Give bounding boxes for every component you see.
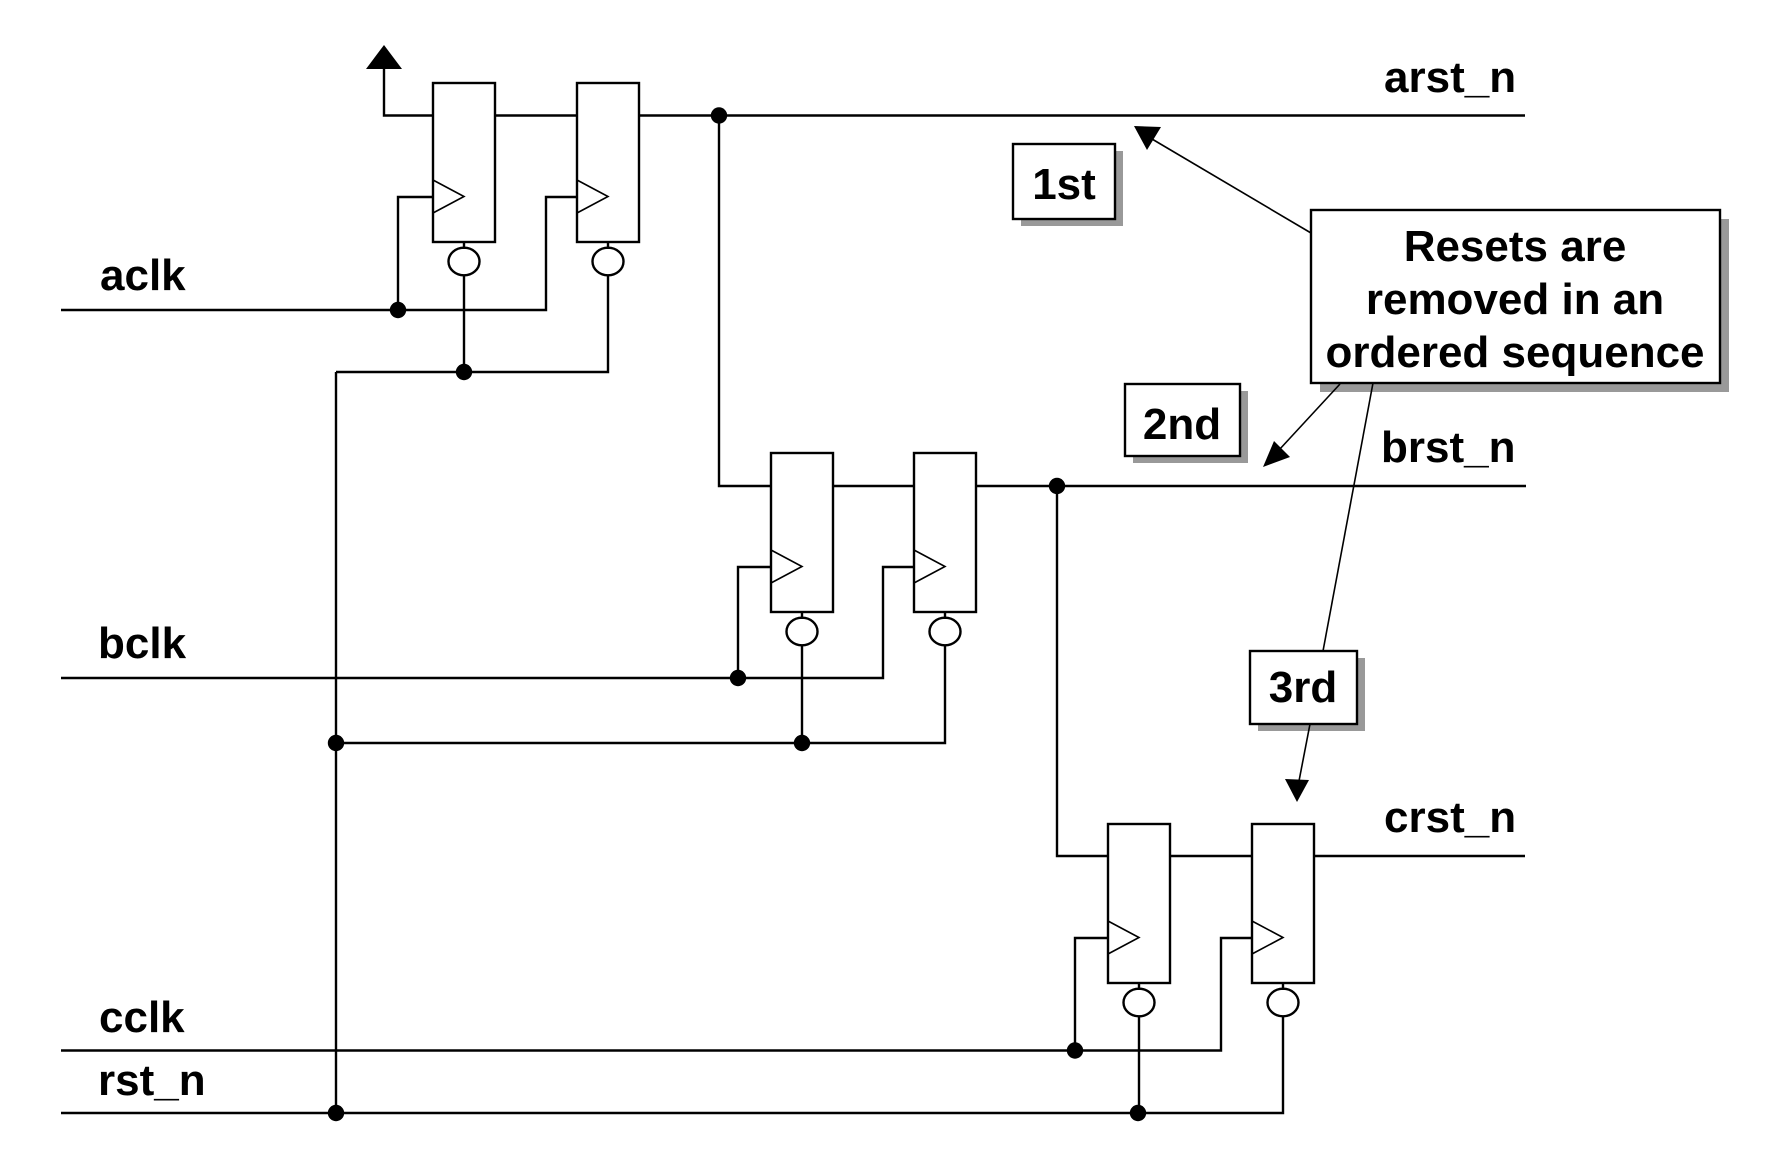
svg-text:ordered sequence: ordered sequence <box>1325 328 1704 377</box>
wire main rst_n vertical rail <box>335 372 337 1113</box>
node stage-B reset junction <box>794 735 810 751</box>
callout box 3rd <box>1250 651 1365 731</box>
wire FF5 reset pin stub <box>1138 983 1140 990</box>
wire FF5 reset bubble down <box>1138 1016 1140 1113</box>
node stage-A reset junction <box>456 364 472 380</box>
callout box 2nd <box>1125 384 1248 463</box>
svg-text:3rd: 3rd <box>1269 663 1337 712</box>
async reset bubble FF6 <box>1268 989 1299 1017</box>
wire FF6 reset pin stub <box>1282 983 1284 990</box>
wire cclk line <box>61 938 1252 1051</box>
wire bclk line <box>61 567 914 678</box>
wire FF4 reset pin stub <box>944 612 946 619</box>
node brst_n junction <box>1049 478 1065 494</box>
node cclk junction <box>1067 1042 1083 1058</box>
wire arst_n net (FF2.Q to right edge) <box>639 114 1525 116</box>
flip-flop FF4 (bclk stage 2) <box>914 453 976 612</box>
power arrow (logic-1 tie-high) <box>366 45 433 116</box>
callout box 1st <box>1013 144 1123 226</box>
wire bclk to FF3 clock <box>738 567 771 678</box>
async reset bubble FF1 <box>449 248 480 276</box>
arrow to brst_n (2nd) <box>1263 384 1340 467</box>
wire FF2 reset pin stub <box>607 242 609 249</box>
node arst_n junction <box>711 107 727 123</box>
node bclk junction <box>730 670 746 686</box>
svg-text:rst_n: rst_n <box>98 1056 206 1105</box>
svg-text:1st: 1st <box>1032 160 1096 209</box>
node rst_n rail junction <box>328 1105 344 1121</box>
wire FF1 reset bubble down <box>463 275 465 372</box>
wire FF3.Q to FF4.D <box>833 485 914 487</box>
svg-text:crst_n: crst_n <box>1384 793 1516 842</box>
flip-flop FF6 (cclk stage 2) <box>1252 824 1314 983</box>
svg-text:2nd: 2nd <box>1143 400 1221 449</box>
note box: Resets are removed in an ordered sequence <box>1311 210 1729 392</box>
svg-text:bclk: bclk <box>98 619 187 668</box>
wire aclk line <box>61 197 577 310</box>
wire FF1.Q to FF2.D <box>495 114 577 116</box>
wire aclk to FF1 clock <box>398 197 433 310</box>
svg-text:aclk: aclk <box>100 251 186 300</box>
flip-flop FF1 (aclk stage 1) <box>433 83 495 242</box>
arrow to arst_n (1st) <box>1134 126 1311 233</box>
arrow to crst_n (3rd) <box>1285 383 1373 802</box>
wire arst_n feed down to stage B <box>719 116 771 487</box>
svg-text:cclk: cclk <box>99 993 185 1042</box>
async reset bubble FF5 <box>1124 989 1155 1017</box>
svg-text:removed in an: removed in an <box>1366 275 1664 324</box>
svg-text:arst_n: arst_n <box>1384 53 1516 102</box>
wire rst_n line <box>61 1016 1283 1113</box>
wire FF1 reset pin stub <box>463 242 465 249</box>
wire brst_n feed down to stage C <box>1057 486 1108 856</box>
svg-text:Resets are: Resets are <box>1404 222 1627 271</box>
async reset bubble FF4 <box>930 618 961 646</box>
node rst_n FF5 junction <box>1130 1105 1146 1121</box>
flip-flop FF5 (cclk stage 1) <box>1108 824 1170 983</box>
wire brst_n net (FF4.Q to right edge) <box>976 485 1526 487</box>
wire FF5.Q to FF6.D <box>1170 855 1252 857</box>
async reset bubble FF2 <box>593 248 624 276</box>
wire FF3 reset bubble down <box>801 645 803 743</box>
wire crst_n net (FF6.Q to right edge) <box>1314 855 1525 857</box>
svg-text:brst_n: brst_n <box>1381 423 1515 472</box>
wire stage-A reset rail <box>336 275 608 372</box>
node aclk junction <box>390 302 406 318</box>
async reset bubble FF3 <box>787 618 818 646</box>
wire stage-B reset rail <box>336 645 945 743</box>
node rail-to-stage-B junction <box>328 735 344 751</box>
wire cclk to FF5 clock <box>1075 938 1108 1051</box>
flip-flop FF3 (bclk stage 1) <box>771 453 833 612</box>
wire FF3 reset pin stub <box>801 612 803 619</box>
flip-flop FF2 (aclk stage 2) <box>577 83 639 242</box>
